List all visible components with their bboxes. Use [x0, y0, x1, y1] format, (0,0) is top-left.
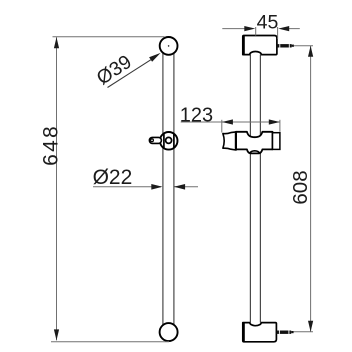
- svg-text:Ø22: Ø22: [93, 166, 133, 189]
- leader Ø39: [108, 56, 158, 88]
- svg-text:648: 648: [39, 124, 62, 166]
- bottom circle end cap: [160, 323, 178, 341]
- holder lever (left): [223, 132, 236, 150]
- bottom mounting screw: [277, 331, 294, 334]
- top mounting screw: [277, 44, 294, 47]
- bar side view: [250, 55, 260, 323]
- shower holder side view: [223, 131, 280, 153]
- top wall bracket: [243, 36, 277, 55]
- bar front view: [163, 50, 174, 328]
- collar dome under holder: [250, 151, 260, 153]
- holder main body: [236, 132, 273, 154]
- svg-text:608: 608: [289, 170, 312, 204]
- dimension 648: [51, 37, 169, 342]
- dimension 608: [293, 46, 313, 332]
- svg-text:123: 123: [180, 105, 213, 127]
- holder end cap right: [273, 133, 280, 150]
- top circle (Ø39 end cap): [160, 37, 178, 55]
- bottom wall bracket: [243, 323, 277, 342]
- svg-text:45: 45: [257, 11, 279, 33]
- slider clamp front view: [149, 132, 177, 150]
